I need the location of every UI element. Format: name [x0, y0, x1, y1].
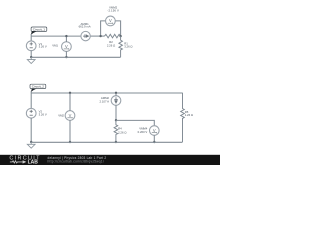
ground (circuit 2): [27, 142, 35, 148]
node dot VMM2 left tap: [99, 35, 101, 37]
svg-text:Circuit_2: Circuit_2: [32, 85, 44, 89]
wire V1 bottom: [30, 51, 32, 58]
node tag Circuit_2: [30, 84, 46, 92]
wire VMM4 bottom: [153, 135, 155, 142]
svg-text:http://circuitlab.com/c/8trqvz: http://circuitlab.com/c/8trqvz5wq1r: [48, 159, 105, 163]
svg-text:3.26 Ω: 3.26 Ω: [124, 45, 132, 49]
svg-text:V: V: [65, 44, 68, 49]
ground (circuit 1): [27, 57, 35, 63]
node tag Circuit_1: [31, 27, 47, 35]
svg-text:2.26 Ω: 2.26 Ω: [107, 43, 115, 47]
wire bottom rail circuit1: [31, 56, 120, 58]
node junction dot V2-ground: [30, 141, 32, 143]
node dot R4 bottom: [115, 141, 117, 143]
svg-text:V: V: [69, 113, 72, 118]
voltage source V2: [26, 108, 46, 118]
svg-text:1.26 Ω: 1.26 Ω: [185, 113, 193, 117]
ammeter AMM2: [100, 96, 121, 106]
voltmeter VMM4: [138, 126, 159, 136]
node dot VM2 bottom: [69, 141, 71, 143]
ammeter AMM1: [79, 22, 91, 41]
node dot mid junction: [115, 119, 117, 121]
wire bottom rail circuit2: [31, 141, 182, 143]
wire V1 top lead + top rail circuit1: [31, 34, 104, 41]
node dot R2/R1/VMM2: [119, 35, 121, 37]
svg-text:-2.156 V: -2.156 V: [107, 9, 119, 13]
node junction dot V1-ground: [30, 56, 32, 58]
svg-text:2.107 A: 2.107 A: [100, 100, 110, 104]
svg-text:LAB: LAB: [28, 160, 39, 166]
wire AMM2 branch: [115, 93, 117, 120]
svg-text:Circuit_1: Circuit_1: [33, 27, 45, 31]
voltmeter VM1: [52, 42, 71, 52]
wire V2 bottom: [30, 118, 32, 142]
node dot VM1 bottom: [65, 56, 67, 58]
svg-text:662.9 mA: 662.9 mA: [79, 25, 91, 29]
wire VM1 branch: [65, 36, 67, 57]
svg-text:V: V: [153, 128, 156, 133]
svg-text:3.26 V: 3.26 V: [39, 113, 47, 117]
voltage source V1: [26, 41, 46, 51]
voltmeter VM2: [58, 111, 75, 121]
wire mid horizontal to VMM4: [116, 120, 154, 126]
svg-text:VM1: VM1: [52, 44, 58, 48]
svg-text:3.26 V: 3.26 V: [39, 45, 47, 49]
voltmeter VMM2 loop wires: [101, 21, 121, 37]
resistor R5: [181, 93, 193, 142]
resistor R4: [114, 120, 126, 142]
wire V2 top lead + top rail circuit2: [31, 91, 182, 108]
node dot VM1 top: [65, 35, 67, 37]
svg-text:VM2: VM2: [58, 113, 64, 117]
node dot AMM2 top: [115, 92, 117, 94]
resistor R1: [119, 36, 133, 57]
node dot VMM4 bottom: [153, 141, 155, 143]
svg-text:0.260 V: 0.260 V: [138, 130, 148, 134]
node dot VM2 top: [69, 92, 71, 94]
wire VM2 branch: [69, 93, 71, 142]
CircuitLab logo: [9, 156, 40, 166]
voltmeter VMM2: [106, 6, 119, 26]
resistor R2: [105, 34, 121, 47]
svg-text:V: V: [109, 18, 112, 23]
svg-text:2.26 Ω: 2.26 Ω: [118, 130, 126, 134]
